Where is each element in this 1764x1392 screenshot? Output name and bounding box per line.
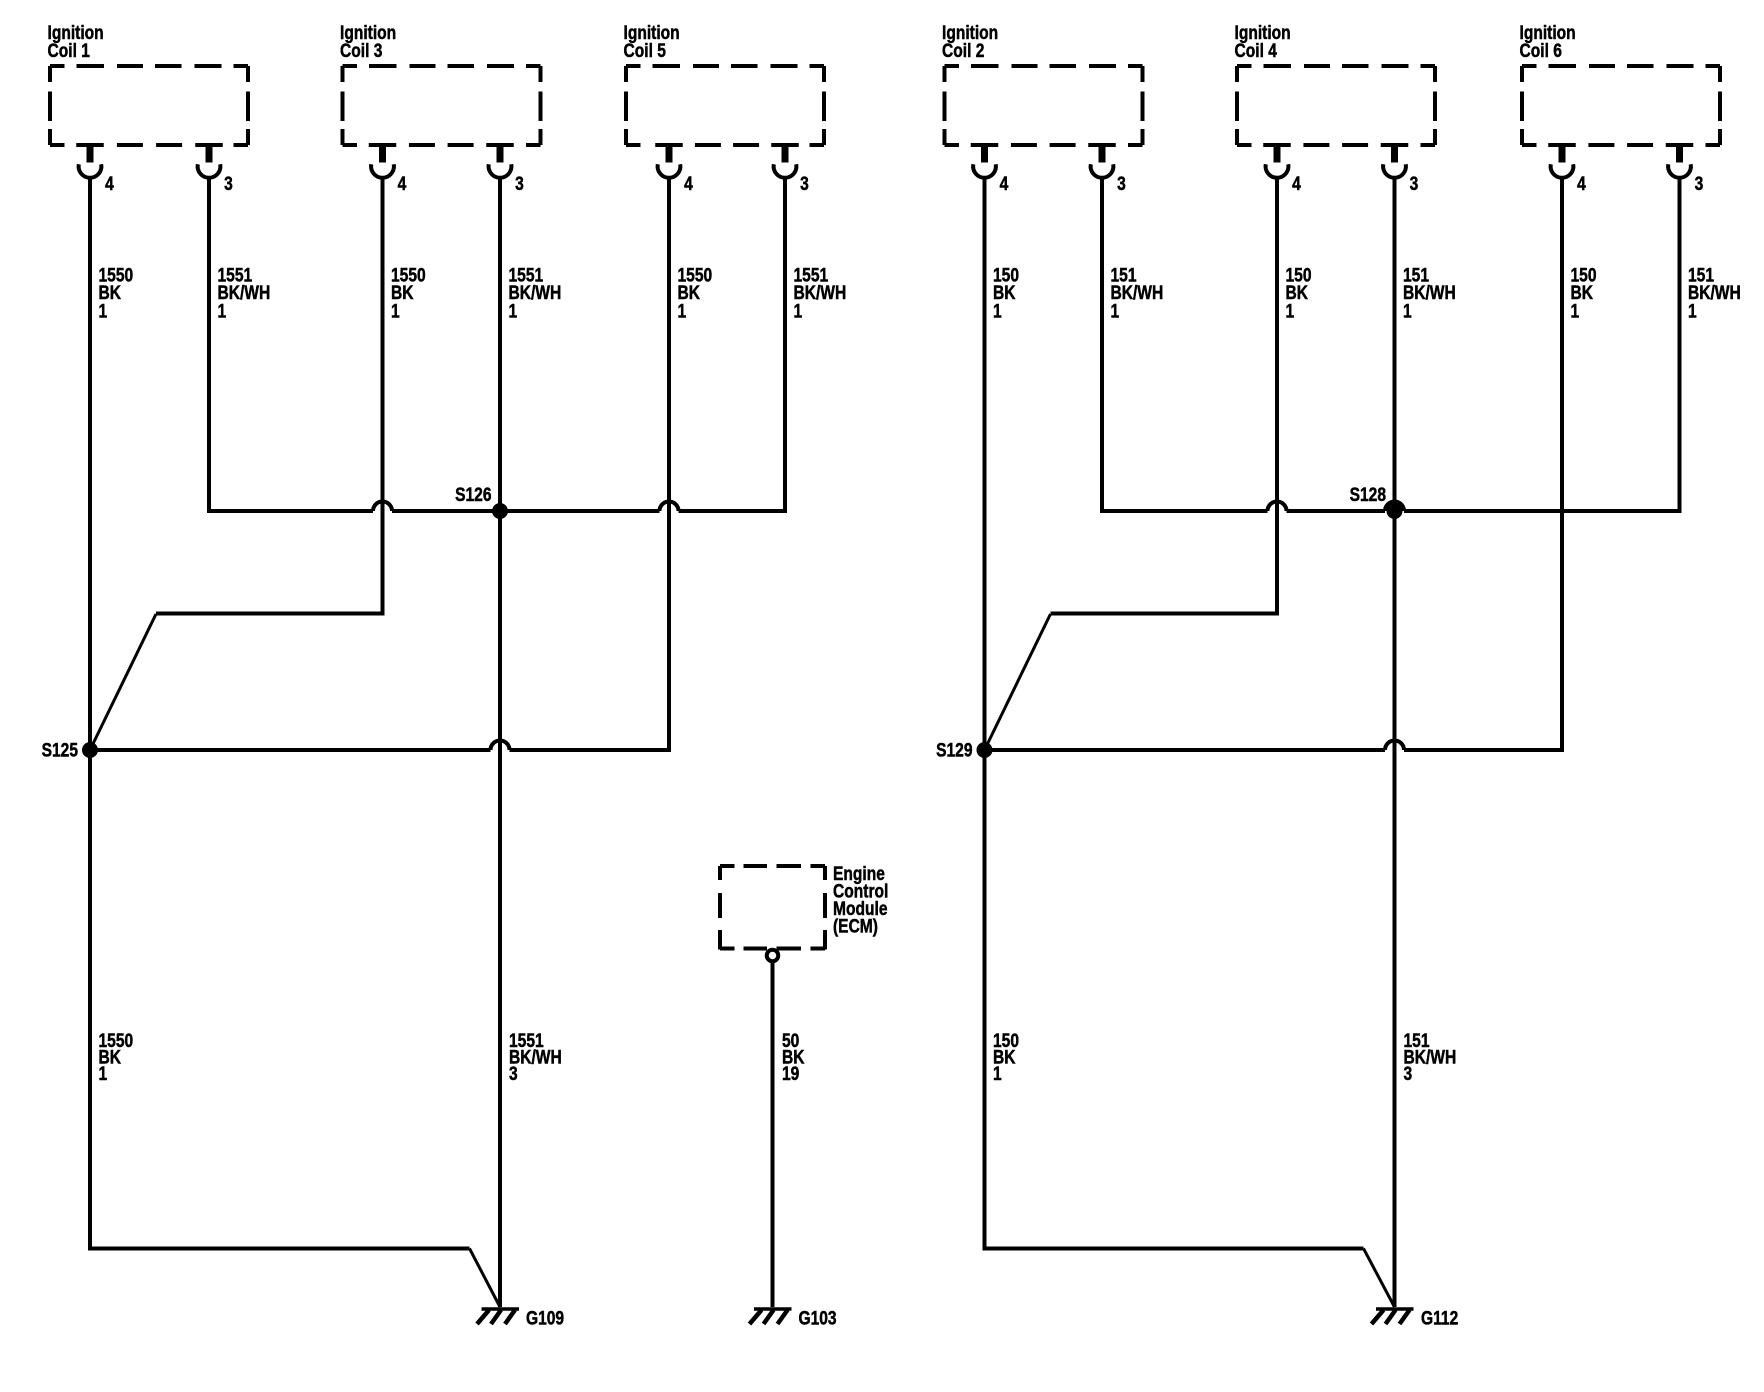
svg-text:G109: G109 bbox=[526, 1307, 564, 1329]
svg-text:Coil 1: Coil 1 bbox=[48, 40, 91, 62]
svg-text:(ECM): (ECM) bbox=[833, 915, 878, 937]
svg-text:Coil 2: Coil 2 bbox=[942, 40, 984, 62]
svg-text:4: 4 bbox=[1577, 173, 1586, 195]
svg-text:1: 1 bbox=[993, 1063, 1002, 1085]
svg-text:Coil 4: Coil 4 bbox=[1235, 40, 1278, 62]
svg-text:1: 1 bbox=[99, 1063, 108, 1085]
svg-text:4: 4 bbox=[684, 173, 693, 195]
svg-text:1: 1 bbox=[1571, 300, 1580, 322]
svg-text:1: 1 bbox=[794, 300, 803, 322]
svg-text:3: 3 bbox=[1695, 173, 1704, 195]
svg-text:4: 4 bbox=[398, 173, 407, 195]
svg-text:G112: G112 bbox=[1421, 1307, 1458, 1329]
svg-text:Coil 6: Coil 6 bbox=[1520, 40, 1563, 62]
svg-text:S126: S126 bbox=[455, 484, 492, 506]
svg-text:1: 1 bbox=[218, 300, 227, 322]
svg-text:Coil 3: Coil 3 bbox=[340, 40, 383, 62]
svg-text:Coil 5: Coil 5 bbox=[624, 40, 667, 62]
svg-text:1: 1 bbox=[1403, 300, 1412, 322]
svg-text:3: 3 bbox=[224, 173, 233, 195]
svg-text:S125: S125 bbox=[42, 739, 79, 761]
svg-text:4: 4 bbox=[1292, 173, 1301, 195]
svg-text:4: 4 bbox=[1000, 173, 1009, 195]
svg-text:1: 1 bbox=[391, 300, 400, 322]
svg-text:3: 3 bbox=[1404, 1063, 1413, 1085]
svg-text:1: 1 bbox=[99, 300, 108, 322]
svg-text:S129: S129 bbox=[936, 739, 973, 761]
svg-text:1: 1 bbox=[993, 300, 1002, 322]
svg-text:3: 3 bbox=[515, 173, 524, 195]
svg-text:4: 4 bbox=[105, 173, 114, 195]
svg-text:3: 3 bbox=[800, 173, 809, 195]
svg-text:1: 1 bbox=[509, 300, 518, 322]
svg-text:1: 1 bbox=[1111, 300, 1120, 322]
svg-text:3: 3 bbox=[1117, 173, 1126, 195]
svg-text:1: 1 bbox=[1688, 300, 1697, 322]
svg-text:G103: G103 bbox=[799, 1307, 837, 1329]
svg-text:3: 3 bbox=[1410, 173, 1419, 195]
svg-text:1: 1 bbox=[678, 300, 687, 322]
svg-text:19: 19 bbox=[782, 1063, 800, 1085]
svg-text:3: 3 bbox=[509, 1063, 518, 1085]
svg-text:S128: S128 bbox=[1350, 484, 1387, 506]
svg-text:1: 1 bbox=[1286, 300, 1295, 322]
